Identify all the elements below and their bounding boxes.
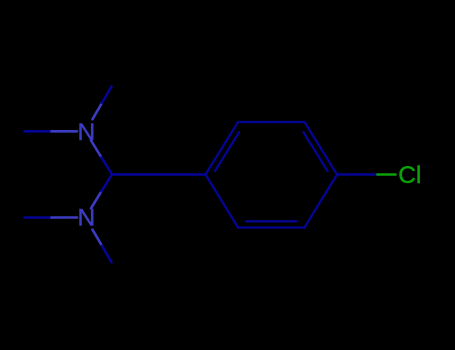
svg-text:N: N: [78, 204, 96, 231]
svg-text:Cl: Cl: [398, 162, 421, 189]
svg-text:N: N: [78, 119, 96, 146]
